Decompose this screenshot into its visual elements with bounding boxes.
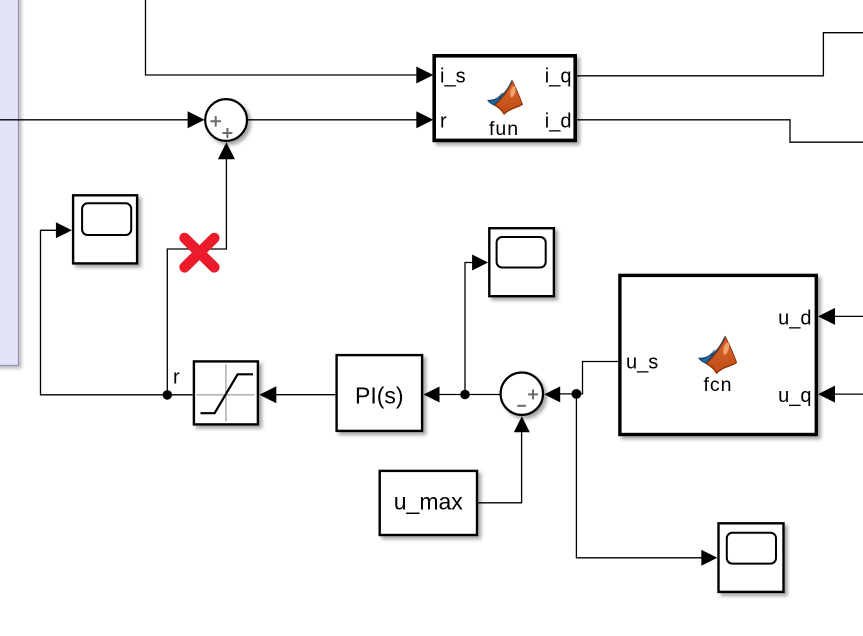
svg-text:i_q: i_q	[545, 66, 572, 88]
svg-text:u_max: u_max	[394, 489, 464, 515]
svg-text:r: r	[173, 367, 180, 389]
svg-text:PI(s): PI(s)	[355, 383, 404, 409]
svg-text:i_s: i_s	[440, 66, 466, 88]
svg-text:fun: fun	[489, 118, 519, 140]
svg-text:u_q: u_q	[778, 385, 811, 407]
svg-text:r: r	[440, 110, 447, 132]
svg-text:u_d: u_d	[778, 308, 811, 330]
svg-text:fcn: fcn	[703, 374, 732, 396]
svg-text:u_s: u_s	[626, 351, 658, 373]
svg-text:i_d: i_d	[545, 110, 572, 132]
